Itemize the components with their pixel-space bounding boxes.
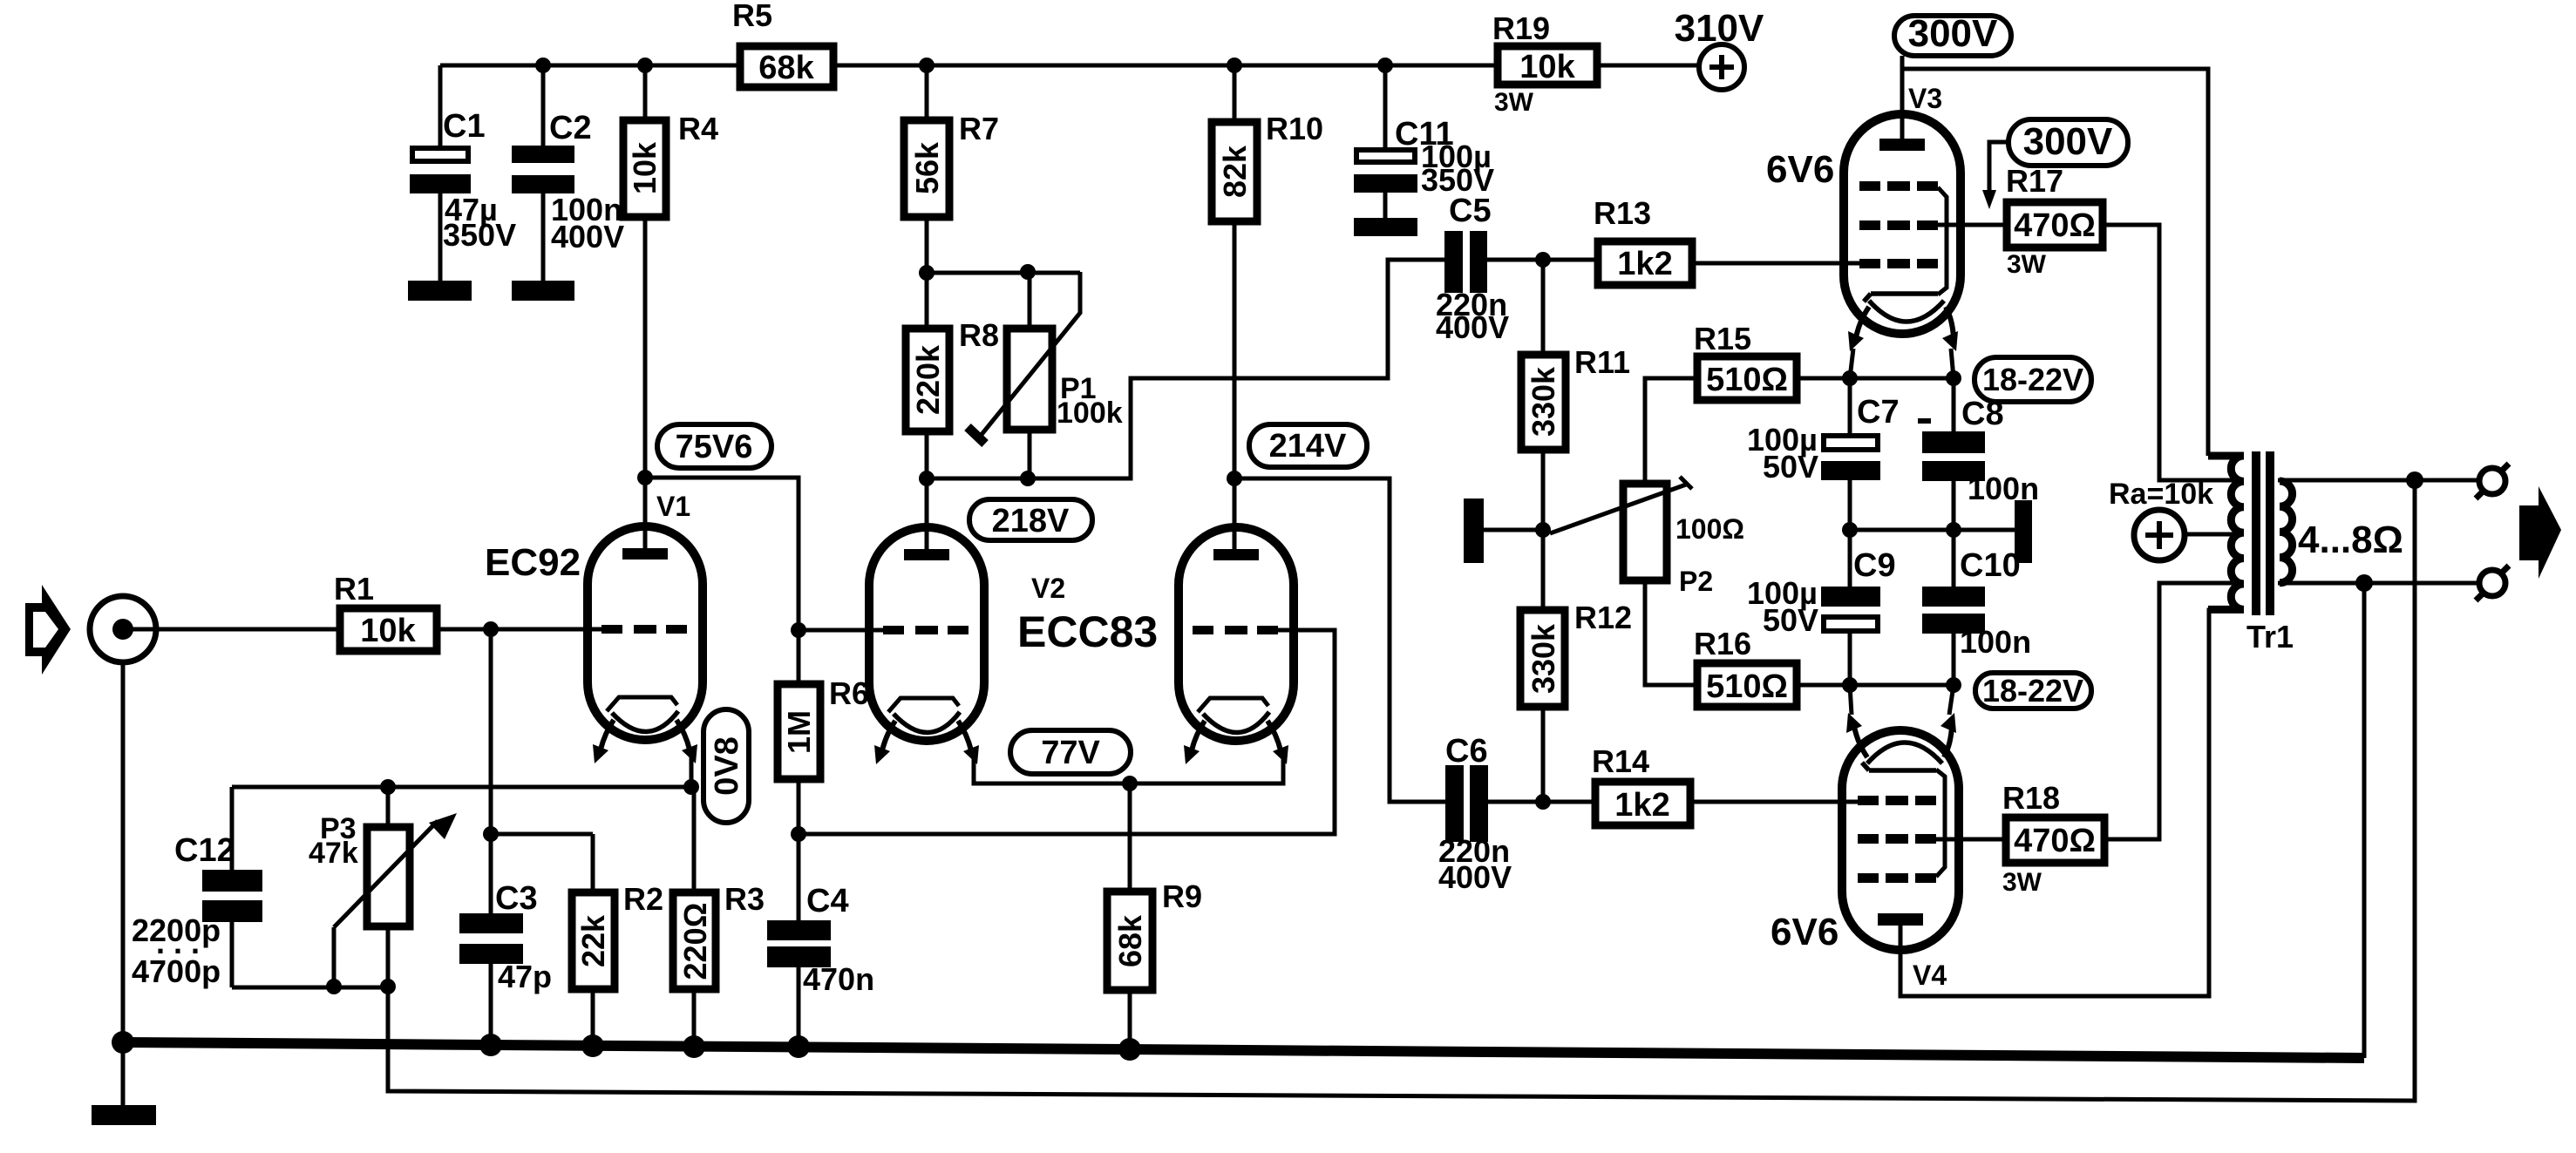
svg-text:R18: R18 bbox=[2002, 780, 2060, 816]
wire R17 to primary tap upper bbox=[2103, 225, 2244, 480]
svg-text:R4: R4 bbox=[678, 111, 718, 146]
svg-text:V3: V3 bbox=[1908, 83, 1942, 114]
svg-text:300V: 300V bbox=[1908, 12, 1998, 55]
node feedback junction on secondary top bbox=[2406, 471, 2423, 489]
svg-text:470Ω: 470Ω bbox=[2014, 823, 2096, 859]
node R7-R8-P1 junction bbox=[919, 265, 935, 281]
capacitor C1 bbox=[410, 65, 516, 281]
svg-text:C6: C6 bbox=[1445, 733, 1488, 770]
svg-text:18-22V: 18-22V bbox=[1982, 362, 2083, 397]
node bus junction R2 bbox=[581, 1034, 604, 1057]
ground symbol right of C8-C10 bbox=[2015, 500, 2032, 563]
svg-text:400V: 400V bbox=[1438, 859, 1512, 895]
svg-text:R3: R3 bbox=[724, 881, 765, 917]
svg-text:3W: 3W bbox=[1494, 88, 1534, 117]
svg-text:50V: 50V bbox=[1763, 449, 1818, 485]
svg-text:3W: 3W bbox=[2002, 868, 2042, 897]
wire V3 cathode legs to R15 line bbox=[1850, 349, 1954, 378]
wire R6 bottom to V2b grid bbox=[799, 630, 1335, 834]
resistor R14 bbox=[1592, 743, 1858, 825]
wire C12 bottom to P3 bottom bbox=[232, 927, 388, 987]
resistor R4 bbox=[623, 65, 718, 478]
resistor R2 bbox=[572, 881, 663, 1046]
ground for C1 bbox=[408, 281, 472, 301]
node 18-22V label oval top bbox=[1974, 357, 2091, 402]
node 18-22V label oval bottom bbox=[1975, 673, 2091, 709]
output terminal bottom bbox=[2476, 566, 2509, 600]
svg-text:82k: 82k bbox=[1217, 145, 1253, 198]
annotation Ra=10k primary impedance bbox=[2109, 478, 2244, 560]
node C8-C10 midpoint junction bbox=[1946, 522, 1961, 538]
tube V4 6V6 bbox=[1842, 713, 1959, 950]
svg-text:R10: R10 bbox=[1266, 111, 1323, 146]
resistor R15 bbox=[1694, 321, 1954, 400]
svg-text:3W: 3W bbox=[2007, 250, 2047, 279]
svg-text:V1: V1 bbox=[656, 491, 690, 522]
svg-text:C1: C1 bbox=[443, 108, 486, 145]
svg-text:0V8: 0V8 bbox=[709, 736, 745, 796]
node 300V label oval top bbox=[1894, 12, 2011, 56]
svg-text:470Ω: 470Ω bbox=[2014, 207, 2096, 244]
node 77V label oval bbox=[1010, 730, 1131, 774]
node 0V8 label oval (vertical) bbox=[703, 709, 749, 823]
node bus junction input shield bbox=[112, 1031, 134, 1054]
node grid junction bbox=[483, 621, 499, 637]
svg-text:R14: R14 bbox=[1592, 743, 1649, 779]
wire V1 anode node to R6 top and V2 grid bbox=[645, 478, 799, 681]
svg-text:C12: C12 bbox=[174, 832, 235, 869]
svg-text:EC92: EC92 bbox=[485, 541, 581, 584]
svg-text:R1: R1 bbox=[334, 571, 374, 607]
capacitor C3 bbox=[459, 880, 552, 1046]
svg-text:P2: P2 bbox=[1679, 566, 1713, 597]
svg-text:C5: C5 bbox=[1449, 193, 1492, 229]
wire 300V rail to transformer bbox=[1902, 69, 2208, 456]
svg-text:400V: 400V bbox=[551, 219, 624, 254]
wire grid node down to C3 bbox=[489, 629, 493, 913]
ground for C11 bbox=[1354, 218, 1417, 236]
capacitor C2 bbox=[512, 65, 624, 281]
node junction rail-R4 bbox=[637, 58, 653, 73]
svg-text:C7: C7 bbox=[1857, 394, 1900, 431]
capacitor C10 bbox=[1922, 530, 2031, 685]
potentiometer P2 bbox=[1550, 378, 1744, 685]
svg-text:C2: C2 bbox=[549, 110, 592, 146]
svg-text:47k: 47k bbox=[309, 837, 358, 870]
node R15-C8 junction bbox=[1946, 370, 1961, 386]
node 218V anode node wire bbox=[919, 471, 935, 486]
svg-text:220Ω: 220Ω bbox=[677, 903, 713, 980]
resistor R12 bbox=[1520, 530, 1632, 802]
node 214V junction and wire to C6 bbox=[1227, 471, 1242, 486]
svg-text:330k: 330k bbox=[1526, 366, 1561, 437]
svg-text:10k: 10k bbox=[360, 613, 416, 649]
node 75V6 label oval bbox=[657, 424, 771, 468]
node R15-C7 junction bbox=[1842, 370, 1858, 386]
svg-text:C3: C3 bbox=[495, 880, 538, 917]
wire V2 cathodes bus bbox=[974, 756, 1283, 783]
svg-text:V2: V2 bbox=[1031, 573, 1065, 604]
svg-text:218V: 218V bbox=[992, 503, 1070, 539]
svg-text:4700p: 4700p bbox=[132, 953, 221, 989]
svg-text:V4: V4 bbox=[1913, 960, 1947, 991]
svg-text:R5: R5 bbox=[732, 0, 772, 33]
input jack connector bbox=[90, 596, 156, 662]
svg-text:10k: 10k bbox=[627, 141, 663, 194]
svg-text:1M: 1M bbox=[781, 710, 817, 754]
svg-text:R8: R8 bbox=[959, 317, 999, 353]
svg-text:R6: R6 bbox=[829, 675, 869, 711]
svg-text:4...8Ω: 4...8Ω bbox=[2298, 519, 2403, 561]
wire V4 screen to R18 bbox=[1936, 838, 2006, 842]
resistor R18 bbox=[2002, 780, 2104, 897]
wire R18 to primary tap lower bbox=[2104, 583, 2244, 839]
node bias divider center junction bbox=[1535, 522, 1551, 538]
svg-text:214V: 214V bbox=[1269, 428, 1347, 465]
resistor R11 bbox=[1521, 260, 1630, 530]
svg-text:510Ω: 510Ω bbox=[1706, 668, 1788, 705]
svg-text:400V: 400V bbox=[1436, 309, 1509, 345]
wire V3 screen to R17 bbox=[1938, 223, 2007, 227]
capacitor C9 bbox=[1747, 530, 1896, 685]
resistor R6 bbox=[778, 675, 869, 920]
tube V2b ECC83 bbox=[1179, 527, 1294, 764]
wire V2a grid bbox=[799, 628, 883, 633]
node wiper junction bbox=[326, 979, 342, 994]
wire feedback line from P3 to secondary top bbox=[388, 480, 2415, 1101]
wire V1 cathode to R3 node bbox=[690, 756, 694, 787]
svg-text:R11: R11 bbox=[1574, 344, 1630, 380]
node junction rail-R7 bbox=[919, 58, 935, 73]
svg-text:R16: R16 bbox=[1694, 626, 1751, 661]
node junction rail-R10 bbox=[1227, 58, 1242, 73]
node 300V label oval at R17 with arrow bbox=[1982, 119, 2128, 209]
wire ground bus riser to secondary bottom bbox=[2362, 583, 2367, 1058]
wire ground bus bbox=[123, 1042, 2364, 1058]
svg-text:6V6: 6V6 bbox=[1771, 911, 1839, 953]
svg-text:350V: 350V bbox=[443, 217, 516, 253]
capacitor C8 bbox=[1918, 378, 2039, 530]
svg-text:220k: 220k bbox=[910, 344, 946, 415]
potentiometer P3 bbox=[309, 787, 457, 987]
svg-text:C10: C10 bbox=[1960, 547, 2021, 584]
svg-text:100n: 100n bbox=[1960, 624, 2031, 660]
node V1 anode junction 75V6 bbox=[637, 470, 653, 485]
resistor R5 bbox=[732, 0, 833, 87]
node R16-C9 junction bbox=[1842, 677, 1858, 693]
svg-text:470n: 470n bbox=[803, 961, 874, 997]
svg-text:R9: R9 bbox=[1162, 878, 1202, 914]
tube V2a ECC83 bbox=[869, 527, 984, 764]
svg-text:77V: 77V bbox=[1041, 735, 1100, 771]
svg-text:10k: 10k bbox=[1519, 49, 1575, 85]
ground symbol left of P2 bbox=[1464, 499, 1484, 563]
output terminal top bbox=[2476, 464, 2509, 499]
wire ground to divider node bbox=[1484, 528, 1543, 532]
resistor R17 bbox=[2006, 163, 2103, 279]
svg-text:Tr1: Tr1 bbox=[2246, 619, 2294, 654]
wire V4 anode to primary bottom bbox=[1900, 610, 2244, 996]
svg-text:100k: 100k bbox=[1057, 397, 1123, 430]
node C3-R2 junction bbox=[483, 826, 499, 842]
resistor R13 bbox=[1594, 195, 1859, 285]
svg-text:22k: 22k bbox=[575, 914, 611, 967]
wire cathode feedback line y=903 bbox=[232, 785, 694, 790]
resistor R9 bbox=[1107, 783, 1202, 1049]
wire input jack shield down to ground bbox=[121, 662, 126, 1105]
capacitor C7 bbox=[1747, 378, 1900, 530]
node cathode-R3 junction bbox=[683, 779, 699, 795]
svg-text:Ra=10k: Ra=10k bbox=[2109, 478, 2213, 511]
svg-text:330k: 330k bbox=[1526, 623, 1561, 694]
node R16-C10 junction bbox=[1946, 677, 1961, 693]
wire secondary top to output bbox=[2278, 478, 2484, 483]
svg-text:100Ω: 100Ω bbox=[1675, 513, 1744, 545]
svg-text:6V6: 6V6 bbox=[1766, 148, 1834, 191]
node bus junction R9 bbox=[1118, 1038, 1141, 1061]
tube V3 6V6 bbox=[1844, 114, 1961, 351]
capacitor C11 bbox=[1354, 65, 1494, 218]
wire secondary bottom to output bbox=[2278, 581, 2484, 586]
wire input to R1 bbox=[123, 627, 340, 632]
resistor R8 bbox=[906, 273, 999, 478]
transformer Tr1 primary winding bbox=[2208, 456, 2244, 609]
svg-text:510Ω: 510Ω bbox=[1706, 362, 1788, 398]
resistor R3 bbox=[673, 787, 765, 1048]
svg-text:75V6: 75V6 bbox=[676, 429, 753, 465]
node ground junction on secondary bottom bbox=[2355, 574, 2373, 592]
node C7-C9 midpoint junction bbox=[1842, 522, 1858, 538]
node V2a grid junction bbox=[791, 622, 806, 638]
svg-text:R2: R2 bbox=[623, 881, 663, 917]
svg-text:ECC83: ECC83 bbox=[1017, 607, 1158, 656]
node bus junction C4 bbox=[787, 1035, 810, 1058]
resistor R16 bbox=[1694, 626, 1954, 707]
node C6-R14-R12 junction bbox=[1535, 794, 1551, 810]
svg-text:R12: R12 bbox=[1574, 600, 1632, 635]
node 218V label oval bbox=[969, 499, 1092, 540]
svg-text:R15: R15 bbox=[1694, 321, 1751, 356]
wire top supply rail bbox=[440, 64, 1700, 68]
svg-text:68k: 68k bbox=[758, 50, 814, 86]
resistor R10 bbox=[1212, 65, 1323, 551]
svg-text:56k: 56k bbox=[909, 141, 945, 194]
wire R1 to V1 grid bbox=[437, 627, 603, 632]
svg-text:300V: 300V bbox=[2023, 120, 2113, 163]
svg-text:R13: R13 bbox=[1594, 195, 1651, 231]
capacitor C5 bbox=[1436, 193, 1594, 345]
svg-text:C4: C4 bbox=[806, 883, 849, 919]
input arrow symbol bbox=[25, 585, 71, 675]
power +310V terminal bbox=[1675, 7, 1764, 90]
capacitor C4 bbox=[767, 883, 874, 1048]
wire V3 anode to 300V rail bbox=[1900, 56, 1905, 148]
svg-text:50V: 50V bbox=[1763, 602, 1818, 638]
node C5-R13-R11 junction bbox=[1535, 252, 1551, 268]
resistor R19 bbox=[1492, 10, 1597, 117]
output arrow symbol bbox=[2519, 486, 2561, 579]
node bus junction R3 bbox=[683, 1035, 705, 1058]
svg-text:C9: C9 bbox=[1853, 547, 1896, 584]
svg-text:68k: 68k bbox=[1112, 914, 1148, 967]
ground symbol bottom left bbox=[92, 1105, 156, 1125]
node junction rail-C11 bbox=[1377, 58, 1393, 73]
node junction rail-C2 bbox=[535, 58, 551, 73]
svg-text:47p: 47p bbox=[498, 959, 552, 994]
tube V1 EC92 bbox=[588, 526, 703, 763]
svg-text:R17: R17 bbox=[2006, 163, 2063, 199]
svg-text:R7: R7 bbox=[959, 111, 999, 146]
svg-text:R19: R19 bbox=[1492, 10, 1550, 46]
resistor R1 bbox=[334, 571, 437, 651]
svg-text:18-22V: 18-22V bbox=[1982, 673, 2083, 709]
svg-text:1k2: 1k2 bbox=[1614, 787, 1669, 824]
node P3 bottom junction bbox=[380, 979, 396, 994]
resistor R7 bbox=[904, 65, 999, 273]
svg-text:310V: 310V bbox=[1675, 7, 1764, 50]
transformer Tr1 core bbox=[2252, 451, 2260, 615]
node bus junction C3 bbox=[479, 1034, 502, 1056]
capacitor C6 bbox=[1438, 733, 1595, 895]
transformer Tr1 secondary winding bbox=[2280, 481, 2293, 583]
wire V4 grid legs to R16 line bbox=[1850, 685, 1954, 715]
potentiometer P1 bbox=[968, 264, 1123, 486]
ground for C2 bbox=[512, 281, 574, 301]
node 214V label oval bbox=[1249, 424, 1367, 467]
node R6-C4-grid2 junction bbox=[791, 826, 806, 842]
capacitor C12 bbox=[132, 787, 262, 989]
node P3 top junction bbox=[380, 779, 396, 795]
svg-text:1k2: 1k2 bbox=[1617, 246, 1672, 282]
node cathode-R9 junction bbox=[1122, 776, 1138, 791]
wire midpoint to right ground bbox=[1850, 528, 2015, 532]
